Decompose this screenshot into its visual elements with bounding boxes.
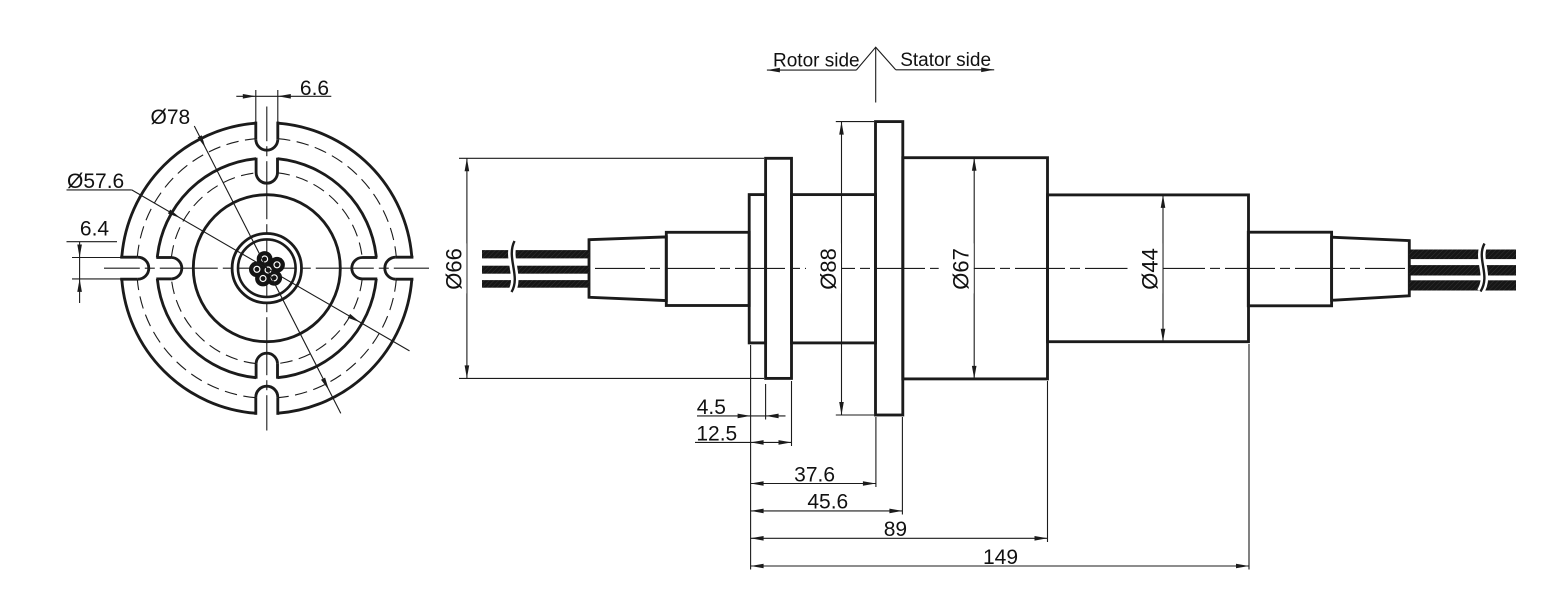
svg-text:Ø88: Ø88 [816,248,841,290]
svg-text:Rotor side: Rotor side [773,51,860,72]
svg-text:Ø67: Ø67 [949,248,974,290]
svg-text:37.6: 37.6 [794,463,835,486]
svg-text:6.4: 6.4 [80,218,110,241]
svg-text:45.6: 45.6 [807,491,848,514]
svg-text:12.5: 12.5 [696,423,737,446]
svg-text:Ø57.6: Ø57.6 [67,170,124,193]
svg-text:89: 89 [884,518,907,541]
svg-text:6.6: 6.6 [300,77,329,100]
svg-text:149: 149 [983,546,1018,569]
svg-text:Ø44: Ø44 [1138,248,1163,290]
svg-text:4.5: 4.5 [697,396,726,419]
svg-text:Stator side: Stator side [900,50,991,71]
svg-text:Ø78: Ø78 [151,106,191,129]
svg-text:Ø66: Ø66 [442,248,467,290]
